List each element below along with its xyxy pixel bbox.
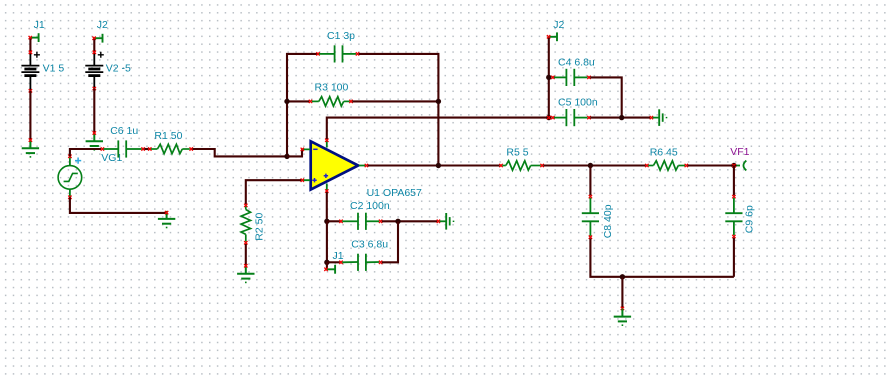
wire C2 to ground	[382, 220, 438, 222]
wire R5 to R6	[543, 164, 645, 166]
ground R2	[237, 264, 254, 282]
junction negative rail left	[324, 219, 329, 224]
capacitor C3	[339, 239, 388, 271]
wire V1 to ground	[29, 91, 31, 140]
jumper J1 (bottom)	[324, 250, 343, 274]
wire inverting input jog	[287, 149, 302, 156]
ground V1	[22, 138, 39, 157]
wire negative rail down	[326, 221, 328, 262]
svg-text:R5 5: R5 5	[506, 146, 528, 158]
resistor R2	[241, 204, 265, 245]
wire R3 row left	[287, 100, 309, 102]
svg-text:V1 5: V1 5	[43, 63, 65, 75]
svg-text:J1: J1	[34, 19, 45, 31]
capacitor C1	[316, 30, 359, 62]
wire V2 to ground	[93, 89, 95, 134]
svg-text:C9 6p: C9 6p	[743, 205, 755, 233]
resistor R6	[645, 146, 688, 170]
wire J2 rail down	[548, 38, 550, 118]
capacitor C8	[582, 195, 614, 239]
jumper J2 (top left)	[92, 19, 108, 43]
wire C3 right up to C2 row	[382, 221, 398, 262]
junction bottom rail ground tap	[620, 274, 625, 279]
svg-text:VF1: VF1	[730, 146, 749, 158]
generator VG1	[58, 152, 122, 199]
svg-text:C4 6.8u: C4 6.8u	[558, 57, 595, 69]
junction C2/C3 right	[395, 219, 400, 224]
wire C8 to bottom rail	[590, 238, 734, 276]
capacitor C5	[551, 96, 598, 126]
junction feedback left bottom	[284, 154, 289, 159]
op-amp U1 OPA657	[301, 139, 422, 200]
wire feedback left rail	[287, 54, 317, 156]
ground C5 (right facing)	[650, 109, 667, 126]
wire J2 to V2	[93, 39, 95, 52]
svg-text:C3 6.8u: C3 6.8u	[351, 239, 388, 251]
junction C4 row	[546, 75, 551, 80]
wire R2 to ground	[245, 244, 247, 266]
wire op-amp bottom power down	[326, 192, 328, 221]
junction feedback left top	[284, 99, 289, 104]
capacitor C4	[551, 57, 595, 86]
resistor R3	[309, 82, 353, 106]
svg-text:C1 3p: C1 3p	[327, 30, 355, 42]
resistor R1	[148, 130, 193, 154]
svg-text:C2 100n: C2 100n	[350, 200, 390, 212]
svg-text:U1 OPA657: U1 OPA657	[367, 187, 422, 199]
svg-text:R3 100: R3 100	[315, 82, 349, 94]
wire C3 row left	[327, 261, 340, 263]
svg-text:C6 1u: C6 1u	[110, 125, 138, 137]
wire J1 stub	[326, 262, 328, 269]
wire op-amp top power to rail	[327, 118, 549, 139]
jumper J1 (top left)	[29, 19, 45, 42]
wire C2 row left	[327, 220, 340, 222]
svg-text:J1: J1	[333, 250, 344, 262]
junction C8 tap	[588, 163, 593, 168]
capacitor C9	[725, 195, 755, 238]
jumper J2 (top right)	[547, 19, 565, 41]
resistor R5	[499, 146, 544, 170]
svg-text:V2 -5: V2 -5	[106, 63, 131, 75]
wire C1 to right rail	[359, 54, 439, 165]
wire R1 to inverting input node	[192, 149, 286, 156]
node VF1 output probe	[730, 146, 749, 170]
junction C4/C5 right	[619, 115, 624, 120]
battery V1	[21, 51, 64, 93]
wire C6 to R1	[144, 148, 148, 150]
wire VG1 top to node	[70, 149, 101, 156]
ground VG1	[158, 211, 175, 228]
wire J1 to V1	[29, 39, 31, 52]
wire op-amp output to R5	[368, 164, 500, 166]
svg-text:J2: J2	[97, 19, 108, 31]
junction output / right rail	[436, 163, 441, 168]
svg-text:J2: J2	[553, 19, 564, 31]
capacitor C6	[101, 125, 145, 157]
junction power rail / C5	[546, 115, 551, 120]
svg-text:R1 50: R1 50	[154, 130, 182, 142]
wire C9 branch down	[733, 166, 735, 196]
battery V2	[85, 51, 131, 91]
wire R3 row right	[352, 100, 438, 102]
svg-text:R2 50: R2 50	[253, 213, 265, 241]
wire R6 to VF1	[688, 164, 734, 166]
wire C8 branch down	[589, 166, 591, 196]
svg-text:C5 100n: C5 100n	[558, 96, 598, 108]
junction C3 row left	[324, 260, 329, 265]
wire VG1 bottom to ground	[70, 197, 166, 213]
wire C4 right down to C5 row	[590, 77, 622, 117]
ground bottom	[614, 307, 631, 326]
ground C2 (right facing)	[437, 213, 454, 230]
wire ground stub	[621, 277, 623, 308]
junction feedback right top	[436, 99, 441, 104]
capacitor C2	[339, 200, 390, 230]
wire C5 to ground	[590, 117, 650, 119]
svg-text:C8 40p: C8 40p	[602, 204, 614, 238]
svg-text:VG1: VG1	[101, 152, 122, 164]
ground V2	[86, 131, 103, 150]
wire + input to R2	[246, 180, 301, 204]
wire C9 to bottom rail	[733, 238, 735, 277]
svg-text:R6 45: R6 45	[650, 146, 678, 158]
